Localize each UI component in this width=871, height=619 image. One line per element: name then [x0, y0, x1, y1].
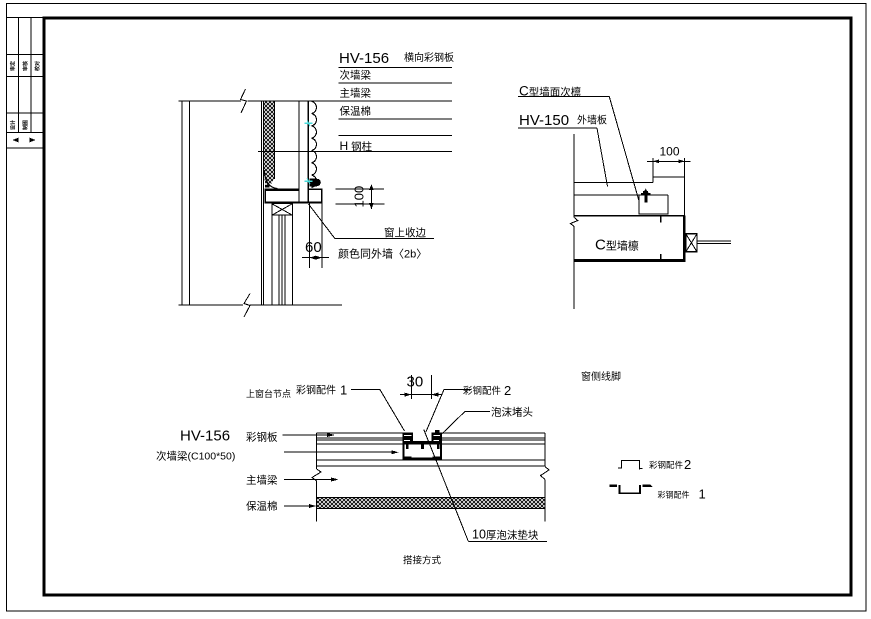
- flashing left leg: [308, 204, 310, 268]
- svg-text:1: 1: [699, 487, 706, 502]
- svg-text:外墙板: 外墙板: [577, 114, 607, 127]
- svg-text:窗上收边: 窗上收边: [384, 226, 426, 239]
- svg-text:H 钢柱: H 钢柱: [340, 139, 373, 153]
- cyan mark lower: [305, 179, 313, 185]
- left break: [312, 469, 321, 481]
- svg-text:上窗台节点: 上窗台节点: [246, 388, 291, 399]
- title strip row lines: [7, 55, 43, 149]
- svg-text:窗侧线脚: 窗侧线脚: [581, 370, 621, 383]
- left edge vertical: [316, 433, 318, 469]
- right edge vertical: [544, 433, 546, 466]
- head box left thick edge: [264, 189, 266, 204]
- svg-text:次墙梁(C100*50): 次墙梁(C100*50): [156, 450, 235, 463]
- joint: tabs: [406, 444, 409, 449]
- insulation strip: [317, 498, 545, 509]
- svg-text:彩钢配件: 彩钢配件: [658, 490, 690, 500]
- panel sheet line 2: [574, 194, 668, 196]
- wall top line: [179, 100, 242, 102]
- svg-text:100: 100: [660, 145, 680, 159]
- svg-text:审核: 审核: [22, 61, 29, 71]
- svg-text:泡沫堵头: 泡沫堵头: [491, 406, 533, 419]
- svg-text:100: 100: [352, 186, 367, 208]
- legend symbol 彩钢配件1: [609, 485, 617, 488]
- svg-text:审定: 审定: [10, 61, 17, 71]
- C purlin lips: [660, 216, 662, 223]
- svg-text:30: 30: [407, 374, 424, 391]
- girt line 2: [317, 465, 545, 467]
- sub purlin small rect: [639, 195, 668, 214]
- bolt: [643, 189, 649, 194]
- right break: [541, 467, 550, 480]
- leader to left clip: [351, 390, 405, 431]
- wall bottom line: [179, 304, 244, 306]
- title strip column line 1: [18, 18, 20, 133]
- insulation right boundary: [273, 101, 275, 179]
- flashing top line: [308, 188, 322, 190]
- svg-text:校对: 校对: [34, 61, 41, 71]
- svg-text:彩钢配件: 彩钢配件: [463, 385, 502, 397]
- dim 60: [302, 257, 329, 259]
- insulation left edge double lines: [261, 101, 263, 305]
- svg-text:设计: 设计: [10, 120, 17, 130]
- window frame verticals: [272, 215, 293, 305]
- C purlin bottom edge: [574, 259, 686, 262]
- joint: bottom bar: [402, 441, 442, 444]
- cyan mark upper: [305, 121, 313, 127]
- wall flange line left: [181, 101, 183, 305]
- svg-text:颜色同外墙〈2b〉: 颜色同外墙〈2b〉: [338, 247, 427, 261]
- head box / flashing thick bottom edge: [264, 201, 322, 203]
- J-curve terminus nub: [265, 185, 270, 188]
- tie rod double line: [697, 240, 731, 242]
- svg-text:主墙梁: 主墙梁: [246, 474, 278, 487]
- svg-text:主墙梁: 主墙梁: [340, 87, 372, 100]
- svg-text:保温棉: 保温棉: [246, 500, 278, 513]
- joint: left clip: [402, 432, 413, 444]
- svg-text:搭接方式: 搭接方式: [403, 555, 442, 567]
- leader to right clip: [426, 389, 472, 432]
- svg-text:2: 2: [684, 457, 691, 472]
- svg-text:HV-156: HV-156: [339, 50, 389, 67]
- panel top line: [317, 432, 413, 434]
- label underlines: [339, 67, 453, 135]
- title strip top line: [7, 17, 45, 19]
- crossed box: [686, 234, 697, 252]
- panel step outline: [653, 177, 685, 216]
- flashing right edge: [321, 189, 323, 203]
- leader line: [518, 96, 609, 98]
- svg-text:次墙梁: 次墙梁: [340, 69, 372, 82]
- leader: [441, 412, 490, 435]
- insulation hatch fill: [264, 101, 274, 187]
- C purlin right edge: [683, 216, 686, 262]
- svg-text:横向彩钢板: 横向彩钢板: [404, 51, 454, 64]
- head box thick top edge: [264, 188, 299, 190]
- panel inner thick line: [307, 101, 309, 203]
- top break zigzag: [241, 89, 247, 113]
- panel bottom line: [317, 443, 403, 445]
- break zigzag: [570, 218, 577, 227]
- window head box: [265, 190, 299, 203]
- flashing right leg: [321, 204, 323, 268]
- bottom break zigzag: [244, 294, 250, 318]
- svg-text:彩钢配件: 彩钢配件: [649, 460, 684, 470]
- wall flange line right: [189, 101, 191, 305]
- C purlin big rect top: [574, 215, 684, 217]
- legend symbol 彩钢配件2: [618, 460, 642, 469]
- svg-text:彩钢配件: 彩钢配件: [296, 384, 336, 397]
- sealant blob: [309, 178, 317, 186]
- girt line 1: [317, 459, 545, 461]
- U channel: [402, 444, 404, 457]
- panel sheet line 1: [574, 182, 653, 184]
- svg-text:彩钢板: 彩钢板: [246, 431, 278, 444]
- svg-text:2: 2: [504, 383, 511, 398]
- leader 窗上收边: [309, 204, 435, 239]
- joint: right clip: [432, 432, 443, 444]
- title strip column line 2: [30, 18, 32, 133]
- leader 10厚泡沫垫块: [424, 430, 469, 542]
- svg-text:HV-150: HV-150: [519, 112, 569, 129]
- panel edge vertical: [573, 134, 575, 218]
- corrugated panel wave: [312, 101, 317, 187]
- svg-text:HV-156: HV-156: [180, 428, 230, 445]
- svg-text:保温棉: 保温棉: [340, 104, 372, 117]
- dim 100 vertical: dim lines: [336, 188, 385, 190]
- svg-text:1: 1: [340, 383, 347, 398]
- svg-text:10厚泡沫垫块: 10厚泡沫垫块: [472, 528, 539, 542]
- liner sheet line: [298, 101, 300, 189]
- svg-text:60: 60: [305, 239, 322, 256]
- panel line 2: [317, 437, 403, 439]
- dim 100 connector: [370, 186, 372, 210]
- title strip rotated cell texts: [10, 61, 41, 130]
- crossed blocking box: [272, 204, 293, 216]
- insulation J-curve: [264, 170, 277, 189]
- svg-text:制图: 制图: [22, 120, 29, 130]
- panel line 3: [317, 439, 403, 441]
- title strip arrow marks: [13, 138, 19, 143]
- leader line: [518, 127, 597, 129]
- H column flange line: [258, 150, 452, 152]
